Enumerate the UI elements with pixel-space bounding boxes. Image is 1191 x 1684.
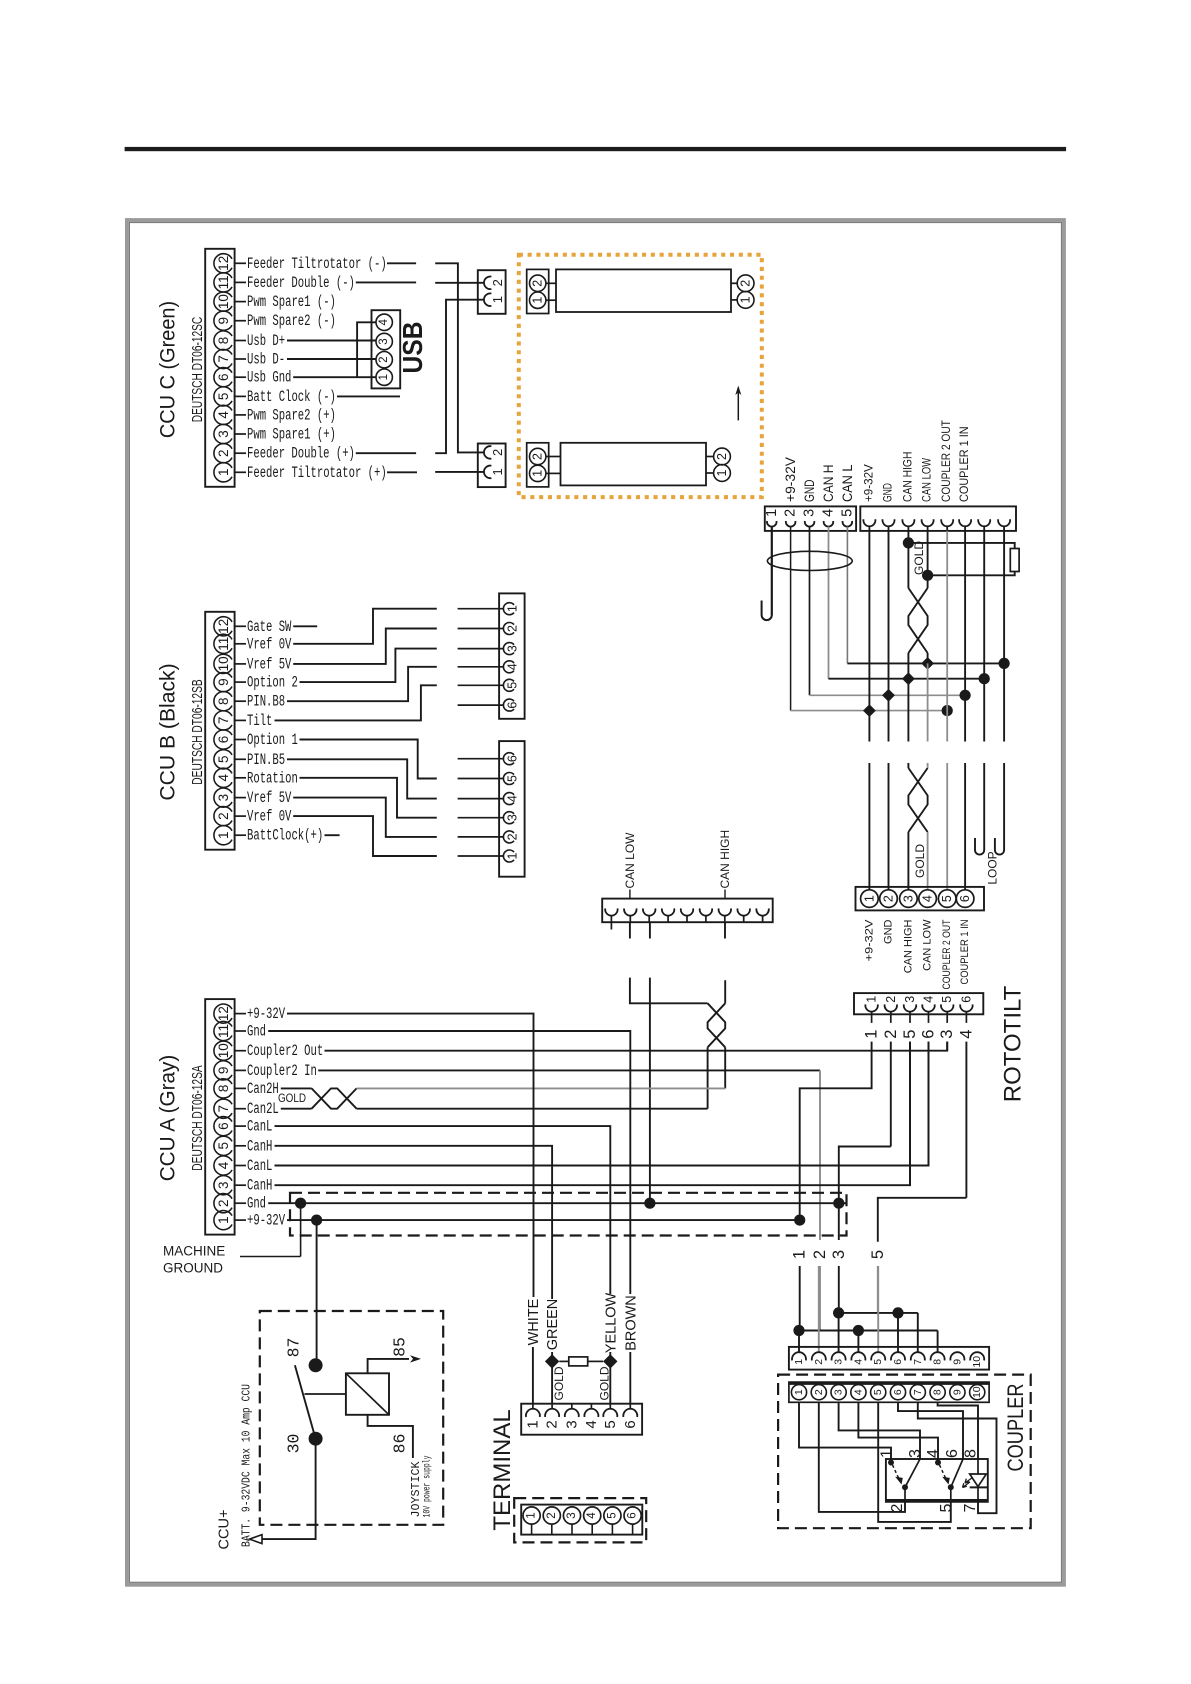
svg-text:1: 1 <box>715 469 729 476</box>
svg-text:2: 2 <box>531 280 545 287</box>
svg-text:6: 6 <box>627 1512 639 1518</box>
svg-text:USB: USB <box>397 322 428 374</box>
svg-text:3: 3 <box>830 1250 848 1259</box>
svg-text:CCU A (Gray): CCU A (Gray) <box>156 1055 180 1182</box>
svg-text:10: 10 <box>216 294 231 309</box>
svg-text:2: 2 <box>783 509 799 517</box>
svg-text:6: 6 <box>958 895 972 902</box>
svg-text:2: 2 <box>216 1199 231 1207</box>
svg-text:2: 2 <box>531 453 545 460</box>
svg-text:9: 9 <box>951 1359 963 1365</box>
svg-text:GOLD: GOLD <box>597 1366 611 1400</box>
svg-text:2: 2 <box>378 356 390 362</box>
svg-text:6: 6 <box>959 996 973 1003</box>
svg-text:4: 4 <box>216 1161 231 1169</box>
svg-text:1: 1 <box>791 1250 809 1259</box>
svg-text:Vref 5V: Vref 5V <box>247 789 292 807</box>
svg-text:COUPLER 2 OUT: COUPLER 2 OUT <box>941 919 953 989</box>
svg-text:Tilt: Tilt <box>247 712 272 730</box>
svg-text:CAN HIGH: CAN HIGH <box>902 452 914 502</box>
svg-text:7: 7 <box>216 717 231 725</box>
svg-text:2: 2 <box>882 895 896 902</box>
svg-text:7: 7 <box>962 1503 979 1512</box>
svg-text:Pwm Spare2 (+): Pwm Spare2 (+) <box>247 406 336 424</box>
svg-text:5: 5 <box>602 1420 619 1428</box>
svg-text:4: 4 <box>852 1389 864 1395</box>
svg-text:ROTOTILT: ROTOTILT <box>1000 985 1027 1102</box>
svg-text:10V power supply: 10V power supply <box>422 1456 434 1518</box>
svg-text:7: 7 <box>216 1105 231 1113</box>
svg-text:2: 2 <box>813 1359 825 1365</box>
svg-text:6: 6 <box>892 1389 904 1395</box>
svg-text:2: 2 <box>506 833 520 840</box>
svg-text:COUPLER: COUPLER <box>1003 1384 1028 1472</box>
svg-text:GND: GND <box>802 479 817 502</box>
svg-text:Pwm Spare2 (-): Pwm Spare2 (-) <box>247 312 336 330</box>
svg-text:5: 5 <box>869 1250 887 1259</box>
svg-text:9: 9 <box>951 1389 963 1395</box>
svg-text:GOLD: GOLD <box>912 541 926 575</box>
svg-text:10: 10 <box>216 1043 231 1058</box>
svg-text:6: 6 <box>892 1359 904 1365</box>
svg-text:1: 1 <box>526 1512 538 1518</box>
svg-text:9: 9 <box>216 1067 231 1075</box>
svg-text:4: 4 <box>583 1420 600 1428</box>
svg-text:3: 3 <box>216 794 231 802</box>
svg-text:1: 1 <box>764 509 780 517</box>
svg-text:3: 3 <box>938 1030 956 1039</box>
svg-text:86: 86 <box>391 1434 410 1454</box>
svg-text:5: 5 <box>216 1142 231 1150</box>
svg-text:10: 10 <box>971 1356 983 1368</box>
svg-text:GND: GND <box>883 919 895 944</box>
svg-text:Option 1: Option 1 <box>247 731 298 749</box>
svg-text:4: 4 <box>922 996 936 1003</box>
svg-text:3: 3 <box>907 1449 924 1458</box>
svg-text:LOOP: LOOP <box>986 851 1000 884</box>
svg-text:Coupler2 Out: Coupler2 Out <box>247 1042 323 1060</box>
svg-text:1: 1 <box>378 374 390 380</box>
svg-text:CCU+: CCU+ <box>217 1510 233 1550</box>
svg-text:3: 3 <box>833 1359 845 1365</box>
svg-text:1: 1 <box>793 1389 805 1395</box>
svg-text:2: 2 <box>811 1250 829 1259</box>
svg-text:Rotation: Rotation <box>247 769 298 787</box>
svg-text:5: 5 <box>506 682 520 689</box>
svg-text:8: 8 <box>216 1085 231 1093</box>
svg-text:Usb D+: Usb D+ <box>247 332 285 350</box>
svg-text:3: 3 <box>506 814 520 821</box>
svg-text:8: 8 <box>963 1449 980 1458</box>
svg-text:2: 2 <box>506 625 520 632</box>
svg-text:7: 7 <box>912 1389 924 1395</box>
svg-text:3: 3 <box>378 338 390 344</box>
svg-text:5: 5 <box>839 509 855 517</box>
svg-text:6: 6 <box>506 755 520 762</box>
svg-text:Vref 0V: Vref 0V <box>247 635 292 653</box>
svg-text:2: 2 <box>216 812 231 820</box>
svg-text:12: 12 <box>216 619 231 634</box>
svg-text:87: 87 <box>285 1338 304 1358</box>
svg-text:8: 8 <box>932 1359 944 1365</box>
svg-text:2: 2 <box>216 449 231 457</box>
svg-text:5: 5 <box>606 1512 618 1518</box>
svg-text:1: 1 <box>739 296 753 303</box>
svg-text:CAN LOW: CAN LOW <box>922 458 934 502</box>
svg-text:PIN.B8: PIN.B8 <box>247 693 285 711</box>
svg-text:CCU C (Green): CCU C (Green) <box>156 301 180 438</box>
svg-text:9: 9 <box>216 678 231 686</box>
svg-text:1: 1 <box>216 831 231 839</box>
svg-text:DEUTSCH DT06-12SA: DEUTSCH DT06-12SA <box>190 1065 206 1171</box>
svg-text:CAN HIGH: CAN HIGH <box>902 919 914 973</box>
svg-text:BATT. 9-32VDC Max 10 Amp CCU: BATT. 9-32VDC Max 10 Amp CCU <box>240 1384 254 1547</box>
svg-text:1: 1 <box>506 852 520 859</box>
svg-text:3: 3 <box>903 996 917 1003</box>
svg-text:4: 4 <box>586 1512 598 1519</box>
svg-text:6: 6 <box>920 1030 938 1039</box>
svg-text:6: 6 <box>216 373 231 381</box>
svg-text:GND: GND <box>883 483 895 502</box>
svg-text:CAN L: CAN L <box>840 464 855 502</box>
svg-text:Gate SW: Gate SW <box>247 618 292 636</box>
svg-text:4: 4 <box>821 509 837 517</box>
svg-text:4: 4 <box>378 319 390 326</box>
svg-text:Coupler2 In: Coupler2 In <box>247 1062 317 1080</box>
svg-text:3: 3 <box>563 1420 580 1428</box>
svg-text:3: 3 <box>506 645 520 652</box>
svg-text:9: 9 <box>216 317 231 325</box>
svg-text:4: 4 <box>216 774 231 782</box>
svg-text:COUPLER 1 IN: COUPLER 1 IN <box>959 919 971 984</box>
svg-text:Vref 0V: Vref 0V <box>247 808 292 826</box>
svg-text:4: 4 <box>506 663 520 670</box>
svg-text:1: 1 <box>793 1359 805 1365</box>
svg-text:1: 1 <box>863 1030 881 1039</box>
svg-text:BattClock(+): BattClock(+) <box>247 827 323 845</box>
svg-text:Usb D-: Usb D- <box>247 351 285 369</box>
svg-text:MACHINE: MACHINE <box>163 1244 225 1259</box>
svg-text:WHITE: WHITE <box>526 1298 542 1345</box>
svg-text:Feeder Tiltrotator (+): Feeder Tiltrotator (+) <box>247 464 387 482</box>
svg-text:DEUTSCH DT06-12SC: DEUTSCH DT06-12SC <box>190 317 206 422</box>
svg-text:GOLD: GOLD <box>552 1366 566 1400</box>
svg-text:1: 1 <box>531 470 545 477</box>
svg-text:CCU B (Black): CCU B (Black) <box>156 663 180 800</box>
svg-text:1: 1 <box>531 297 545 304</box>
svg-text:5: 5 <box>216 393 231 401</box>
svg-text:1: 1 <box>490 468 505 475</box>
svg-text:1: 1 <box>216 1216 231 1224</box>
svg-text:4: 4 <box>852 1359 864 1365</box>
svg-text:5: 5 <box>940 996 954 1003</box>
svg-text:2: 2 <box>882 1030 900 1039</box>
svg-text:3: 3 <box>802 509 818 517</box>
svg-text:11: 11 <box>216 637 231 651</box>
svg-text:1: 1 <box>862 895 876 902</box>
svg-text:6: 6 <box>216 1122 231 1130</box>
svg-text:2: 2 <box>813 1389 825 1395</box>
svg-text:Feeder Double (+): Feeder Double (+) <box>247 445 355 463</box>
svg-text:4: 4 <box>921 895 935 902</box>
svg-text:Feeder Tiltrotator (-): Feeder Tiltrotator (-) <box>247 255 387 273</box>
svg-text:12: 12 <box>216 1006 231 1021</box>
svg-text:6: 6 <box>944 1449 961 1458</box>
svg-text:JOYSTICK: JOYSTICK <box>410 1461 423 1517</box>
svg-text:Usb Gnd: Usb Gnd <box>247 369 291 387</box>
svg-text:GOLD: GOLD <box>913 844 927 878</box>
svg-text:2: 2 <box>544 1420 561 1428</box>
svg-text:Option 2: Option 2 <box>247 674 298 692</box>
svg-text:CAN LOW: CAN LOW <box>922 919 934 971</box>
svg-text:5: 5 <box>216 756 231 764</box>
svg-text:8: 8 <box>932 1389 944 1395</box>
svg-text:3: 3 <box>216 1181 231 1189</box>
svg-text:CanL: CanL <box>247 1118 272 1136</box>
svg-text:GROUND: GROUND <box>163 1261 223 1276</box>
svg-text:Can2H: Can2H <box>247 1080 279 1098</box>
svg-text:5: 5 <box>872 1389 884 1395</box>
svg-text:2: 2 <box>546 1512 558 1518</box>
svg-text:3: 3 <box>566 1512 578 1518</box>
svg-text:2: 2 <box>739 280 753 287</box>
svg-text:11: 11 <box>216 275 231 289</box>
svg-text:8: 8 <box>216 697 231 705</box>
svg-text:GREEN: GREEN <box>545 1299 561 1351</box>
svg-text:4: 4 <box>216 411 231 419</box>
svg-text:YELLOW: YELLOW <box>603 1292 619 1353</box>
svg-text:Gnd: Gnd <box>247 1023 266 1041</box>
svg-text:Vref 5V: Vref 5V <box>247 655 292 673</box>
svg-text:Gnd: Gnd <box>247 1195 266 1213</box>
svg-text:6: 6 <box>216 736 231 744</box>
svg-text:Feeder Double (-): Feeder Double (-) <box>247 274 355 292</box>
svg-text:1: 1 <box>506 605 520 612</box>
svg-text:1: 1 <box>865 996 879 1003</box>
svg-text:+9-32V: +9-32V <box>247 1005 286 1023</box>
svg-text:8: 8 <box>216 337 231 345</box>
svg-text:1: 1 <box>524 1420 541 1428</box>
svg-text:2: 2 <box>884 996 898 1003</box>
svg-text:2: 2 <box>490 449 505 456</box>
svg-text:4: 4 <box>957 1030 975 1039</box>
svg-text:10: 10 <box>216 656 231 671</box>
svg-text:5: 5 <box>938 1503 955 1512</box>
svg-text:1: 1 <box>490 296 505 303</box>
svg-text:85: 85 <box>391 1337 410 1357</box>
svg-text:DEUTSCH DT06-12SB: DEUTSCH DT06-12SB <box>190 679 206 784</box>
svg-text:2: 2 <box>490 279 505 286</box>
svg-text:PIN.B5: PIN.B5 <box>247 751 285 769</box>
svg-text:Batt Clock (-): Batt Clock (-) <box>247 388 336 406</box>
svg-text:GOLD: GOLD <box>278 1091 306 1105</box>
svg-text:4: 4 <box>925 1449 942 1458</box>
svg-text:3: 3 <box>216 430 231 438</box>
svg-text:7: 7 <box>216 355 231 363</box>
svg-text:5: 5 <box>940 895 954 902</box>
svg-text:5: 5 <box>901 1030 919 1039</box>
svg-text:+9-32V: +9-32V <box>783 457 798 502</box>
svg-text:3: 3 <box>901 895 915 902</box>
svg-text:+9-32V: +9-32V <box>863 464 875 502</box>
svg-text:CanH: CanH <box>247 1177 272 1195</box>
svg-text:Can2L: Can2L <box>247 1100 279 1118</box>
svg-text:CAN H: CAN H <box>821 465 836 503</box>
svg-text:+9-32V: +9-32V <box>863 919 875 962</box>
svg-text:2: 2 <box>715 453 729 460</box>
svg-text:CanH: CanH <box>247 1137 272 1155</box>
svg-text:6: 6 <box>506 702 520 709</box>
svg-text:+9-32V: +9-32V <box>247 1212 286 1230</box>
svg-text:4: 4 <box>506 795 520 802</box>
svg-text:BROWN: BROWN <box>623 1295 639 1351</box>
svg-text:7: 7 <box>912 1359 924 1365</box>
svg-text:CAN HIGH: CAN HIGH <box>718 830 732 889</box>
svg-text:6: 6 <box>622 1420 639 1428</box>
svg-text:11: 11 <box>216 1024 231 1038</box>
svg-text:COUPLER 1 IN: COUPLER 1 IN <box>959 426 971 502</box>
svg-text:1: 1 <box>879 1449 896 1458</box>
svg-text:10: 10 <box>971 1386 983 1398</box>
svg-text:1: 1 <box>216 469 231 477</box>
svg-text:Pwm Spare1 (+): Pwm Spare1 (+) <box>247 426 336 444</box>
svg-text:CAN LOW: CAN LOW <box>623 832 637 889</box>
svg-text:COUPLER 2 OUT: COUPLER 2 OUT <box>941 420 953 502</box>
svg-text:5: 5 <box>506 775 520 782</box>
svg-text:12: 12 <box>216 256 231 271</box>
svg-text:TERMINAL: TERMINAL <box>489 1409 516 1530</box>
svg-text:30: 30 <box>285 1434 304 1454</box>
svg-text:CanL: CanL <box>247 1157 272 1175</box>
svg-text:Pwm Spare1 (-): Pwm Spare1 (-) <box>247 293 336 311</box>
svg-text:5: 5 <box>872 1359 884 1365</box>
svg-text:3: 3 <box>833 1389 845 1395</box>
